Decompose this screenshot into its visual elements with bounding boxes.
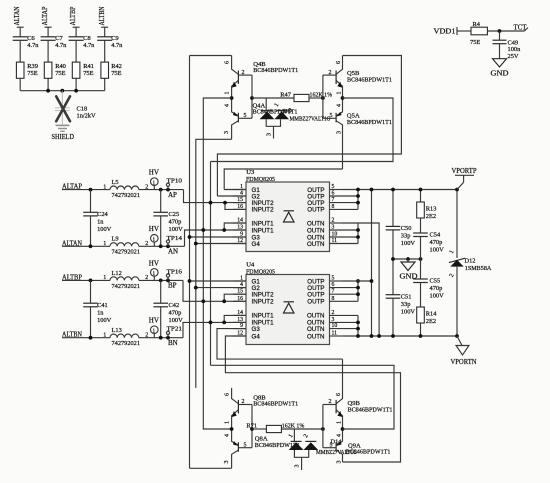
svg-text:100V: 100V (430, 292, 445, 299)
svg-text:G4: G4 (252, 241, 261, 248)
svg-text:OUTN: OUTN (307, 333, 325, 340)
wire rail AP / BN / Q9-emitters (210, 162, 212, 366)
svg-text:BC846BPDW1T1: BC846BPDW1T1 (253, 400, 298, 407)
wire U4 OUTP join (357, 281, 359, 301)
wire R71 right (281, 428, 323, 430)
resistor R40 75E (44, 62, 66, 91)
svg-text:C24: C24 (97, 211, 108, 218)
resistor R14 2E2 (417, 307, 438, 338)
node Q8 base/R71 junction (250, 427, 254, 431)
svg-text:742792021: 742792021 (112, 283, 141, 290)
transistor Q8A BC846BPDW1T1 (224, 429, 300, 468)
svg-text:R13: R13 (426, 206, 437, 213)
ground SHIELD (52, 125, 75, 140)
test point TP16 (166, 268, 183, 282)
svg-text:100V: 100V (97, 317, 112, 324)
svg-text:1n: 1n (97, 309, 104, 316)
node junction at C49 (498, 29, 502, 33)
svg-text:BC846BPDW1T1: BC846BPDW1T1 (346, 449, 391, 456)
wire Q5 emitters loop to U3 G2 (211, 98, 394, 162)
svg-text:4.7n: 4.7n (83, 42, 95, 49)
wire AP feed to U3 INPUT2 (184, 190, 247, 203)
svg-text:100V: 100V (401, 309, 416, 316)
svg-text:3: 3 (294, 465, 300, 468)
svg-text:AN: AN (168, 248, 178, 256)
wire rail Q4-emitters / AN / BP / Q8-emitters (203, 98, 231, 429)
wire AP node (139, 189, 184, 191)
svg-text:C41: C41 (97, 302, 108, 309)
wire U3 G2 row (217, 195, 246, 197)
svg-text:ALTAN: ALTAN (13, 7, 21, 26)
svg-text:5: 5 (330, 113, 333, 119)
svg-text:U4: U4 (246, 262, 255, 269)
transistor Q4A BC846BPDW1T1 (224, 98, 298, 139)
svg-text:4: 4 (225, 104, 231, 107)
svg-text:ALTBP: ALTBP (69, 6, 77, 25)
svg-text:2E2: 2E2 (426, 213, 436, 220)
svg-text:C42: C42 (169, 302, 180, 309)
wire Q4 base rail (251, 75, 253, 118)
wire OUTN bus (bottom) (343, 335, 458, 337)
wire AN feed to U3 INPUT1 (185, 230, 247, 246)
capacitor C41 1n 100V (83, 279, 111, 338)
resistor R13 2E2 (417, 188, 437, 233)
power flag HV (BN) (149, 317, 159, 338)
wire Q8 base rail (251, 405, 253, 448)
capacitor C18 1n/2kV (not fitted, greyed) (55, 91, 96, 125)
wire R47 left (252, 97, 294, 99)
svg-text:470p: 470p (169, 219, 182, 226)
svg-text:R39: R39 (27, 63, 38, 70)
wire U4 OUTN join (357, 315, 359, 336)
svg-text:VPORTN: VPORTN (451, 358, 477, 366)
diode D14 MMBZ27VALT1G (288, 429, 358, 470)
resistor R71 162K 1% (246, 423, 305, 433)
svg-text:G3: G3 (252, 326, 261, 333)
wire U4 G3 row to Q9B collector (217, 329, 343, 360)
capacitor C42 470p 100V (153, 279, 183, 338)
svg-text:4: 4 (225, 434, 231, 437)
inductor L12 742792021 (103, 270, 148, 290)
port ALTBN (98, 7, 108, 37)
port ALTAN (13, 7, 24, 37)
wire U3 G3 row (190, 236, 247, 238)
svg-text:33p: 33p (401, 301, 411, 308)
svg-text:742792021: 742792021 (112, 192, 141, 199)
wire BN node (139, 337, 183, 339)
wire BP feed to U4 INPUT2 (183, 280, 246, 301)
svg-text:742792021: 742792021 (112, 340, 141, 347)
resistor R4 75E (470, 21, 487, 46)
wire U4 G4 row to Q9A collector (225, 336, 400, 462)
svg-text:1: 1 (336, 92, 342, 95)
svg-text:100V: 100V (430, 246, 445, 253)
svg-text:TP21: TP21 (167, 326, 183, 333)
capacitor C51 33p 100V (386, 259, 416, 338)
svg-text:100V: 100V (97, 226, 112, 233)
svg-text:OUTP: OUTP (307, 292, 324, 299)
port TCT (514, 23, 529, 31)
svg-text:3: 3 (336, 461, 342, 464)
svg-text:HV: HV (149, 259, 159, 267)
transistor Q9A BC846BPDW1T1 (323, 429, 391, 464)
wire Q5B collector loop to U3 G1 (217, 56, 401, 197)
power flag HV (AP) (149, 169, 159, 190)
resistor R42 75E (101, 62, 122, 91)
port ALTAP (filter A) (62, 183, 110, 191)
node Q4 emitters junction (230, 96, 234, 100)
wire long rail Q4B-collector / U3-G3 / U4-G1 (189, 56, 191, 469)
svg-text:5: 5 (244, 443, 247, 449)
wire AN node (139, 245, 185, 247)
svg-text:3: 3 (224, 131, 230, 134)
wire Q8A collector loop bottom (190, 467, 232, 469)
svg-text:BN: BN (168, 339, 178, 347)
svg-text:OUTP: OUTP (307, 299, 324, 306)
svg-text:25V: 25V (508, 53, 519, 60)
port VPORTN (451, 336, 477, 366)
capacitor C24 1n 100V (83, 188, 111, 247)
svg-text:8: 8 (332, 296, 335, 302)
svg-text:3: 3 (336, 131, 342, 134)
inductor L13 742792021 (103, 327, 148, 347)
svg-text:1: 1 (103, 332, 106, 338)
svg-text:R41: R41 (83, 63, 94, 70)
wire mid rail (393, 258, 421, 260)
svg-text:C54: C54 (430, 231, 441, 238)
test point TP21 (166, 326, 182, 340)
svg-text:4: 4 (336, 104, 342, 107)
svg-text:13: 13 (237, 317, 243, 323)
svg-text:TP16: TP16 (167, 268, 183, 275)
svg-text:11: 11 (332, 238, 338, 244)
svg-text:C25: C25 (169, 211, 180, 218)
svg-text:SHIELD: SHIELD (52, 133, 75, 141)
capacitor C9 4.7n (97, 35, 123, 62)
port VPORTP (452, 167, 477, 190)
svg-text:OUTP: OUTP (307, 207, 324, 214)
op-amp U3 FDMQ8205 (233, 169, 358, 252)
svg-text:7: 7 (332, 289, 335, 295)
capacitor C55 470p 100V (413, 259, 444, 307)
wire R71 left (252, 428, 266, 430)
transistor Q9B BC846BPDW1T1 (323, 359, 393, 429)
svg-text:R14: R14 (426, 311, 437, 318)
svg-text:6: 6 (225, 393, 231, 396)
svg-text:ALTBN: ALTBN (98, 7, 106, 26)
svg-text:L5: L5 (112, 179, 119, 186)
wire OUTP-OUTN tie rail (371, 190, 373, 337)
svg-text:ALTAP: ALTAP (41, 6, 49, 25)
svg-text:OUTN: OUTN (307, 220, 325, 227)
capacitor C49 100n 25V (493, 31, 522, 60)
transistor Q5B BC846BPDW1T1 (323, 56, 392, 99)
node R71/Q9 junction (321, 427, 325, 431)
svg-text:BC846BPDW1T1: BC846BPDW1T1 (347, 119, 392, 126)
wire U4 INPUT1 pin14 branch (224, 315, 246, 322)
svg-text:INPUT1: INPUT1 (252, 220, 275, 227)
svg-text:6: 6 (332, 282, 335, 288)
svg-text:3: 3 (332, 317, 335, 323)
svg-text:5: 5 (332, 276, 335, 282)
svg-text:1: 1 (225, 92, 231, 95)
node Q4 base/R47 junction (250, 96, 254, 100)
wire shield bus (20, 90, 105, 92)
svg-text:3: 3 (224, 461, 230, 464)
wire OUTP bus (top) (343, 189, 458, 191)
svg-text:OUTN: OUTN (307, 326, 325, 333)
svg-text:1: 1 (225, 421, 231, 424)
svg-text:INPUT2: INPUT2 (252, 207, 275, 214)
wire U3 INPUT2 pin16 branch (225, 203, 246, 210)
svg-text:TP10: TP10 (167, 178, 183, 185)
svg-text:C50: C50 (401, 225, 412, 232)
svg-text:AP: AP (168, 191, 177, 199)
port ALTAP (41, 6, 52, 36)
svg-text:U3: U3 (246, 169, 255, 176)
wire U3 OUTN join (357, 223, 359, 244)
node Q9 emitters junction (341, 427, 345, 431)
port ALTBP (filter B) (62, 273, 110, 281)
svg-text:2: 2 (332, 310, 335, 316)
inductor L9 742792021 (103, 236, 148, 256)
svg-text:75E: 75E (55, 70, 65, 77)
svg-text:470p: 470p (430, 285, 443, 292)
svg-text:5: 5 (332, 184, 335, 190)
svg-text:HV: HV (149, 169, 159, 177)
svg-text:6: 6 (336, 61, 342, 64)
svg-text:HV: HV (149, 225, 159, 233)
svg-text:INPUT1: INPUT1 (252, 313, 275, 320)
svg-text:1n/2kV: 1n/2kV (77, 112, 97, 119)
power flag HV (AN) (149, 225, 159, 246)
svg-text:3: 3 (266, 133, 272, 136)
capacitor C7 4.7n (41, 35, 68, 62)
node Q5 emitters junction (341, 96, 345, 100)
svg-text:D6: D6 (283, 108, 291, 115)
wire Q5 base rail (322, 75, 324, 118)
svg-text:G4: G4 (252, 333, 261, 340)
wire U4 INPUT2 pin15 branch (224, 294, 246, 301)
svg-text:1: 1 (336, 421, 342, 424)
wire rail Q4A-collector / U3-G4 / U4-G2 / Q8B-collector (196, 139, 232, 388)
svg-text:1: 1 (103, 184, 106, 190)
resistor R39 75E (16, 62, 38, 91)
wire U3 OUTN to bottom bus (343, 223, 380, 336)
svg-text:3: 3 (332, 225, 335, 231)
diode D12 1SMB58A (449, 250, 492, 279)
wire BN feed to U4 INPUT1 (183, 322, 246, 337)
svg-text:VPORTP: VPORTP (452, 167, 477, 175)
resistor R47 162K 1% (280, 92, 332, 102)
svg-text:OUTN: OUTN (307, 227, 325, 234)
port ALTAN (filter A) (62, 239, 110, 247)
ground GND (mid) (400, 257, 418, 280)
svg-text:INPUT1: INPUT1 (252, 227, 275, 234)
svg-text:2E2: 2E2 (426, 318, 436, 325)
svg-text:11: 11 (332, 331, 338, 337)
svg-text:BC846BPDW1T1: BC846BPDW1T1 (347, 76, 392, 83)
node Q8 emitters junction (230, 427, 234, 431)
svg-text:5: 5 (330, 443, 333, 449)
wire U3 G4 row (196, 243, 246, 245)
wire Q5A collector loop (224, 169, 342, 190)
op-amp U4 FDMQ8205 (233, 262, 358, 345)
wire Q9 base rail (322, 405, 324, 448)
svg-text:L9: L9 (112, 236, 119, 243)
svg-text:1: 1 (103, 275, 106, 281)
svg-text:C51: C51 (401, 294, 412, 301)
svg-text:6: 6 (332, 191, 335, 197)
ground GND (top right) (491, 59, 509, 78)
svg-text:1SMB58A: 1SMB58A (465, 265, 492, 272)
transistor Q4B BC846BPDW1T1 (225, 56, 299, 99)
test point TP14 (166, 235, 183, 248)
wire R47 right (309, 97, 323, 99)
svg-text:13: 13 (237, 225, 243, 231)
wire BP node (139, 279, 183, 281)
capacitor C8 4.7n (69, 35, 96, 62)
resistor R41 75E (72, 62, 94, 91)
svg-text:75E: 75E (470, 39, 480, 46)
svg-text:L12: L12 (112, 270, 122, 277)
port ALTBP (69, 6, 80, 36)
svg-text:10: 10 (332, 323, 338, 329)
svg-text:MMBZ27VALT1G: MMBZ27VALT1G (290, 117, 332, 123)
no-fit cross over C18 (56, 96, 70, 121)
transistor Q5A BC846BPDW1T1 (323, 98, 392, 169)
test point TP10 (166, 178, 183, 192)
wire U3 G1 row (224, 189, 246, 191)
svg-text:R71: R71 (246, 423, 257, 430)
wire U4 G2 row (196, 287, 246, 289)
wire U3 INPUT1 pin14 branch (224, 223, 246, 230)
svg-text:2: 2 (329, 70, 332, 76)
wire U4 OUTP row to rail (343, 280, 372, 282)
capacitor C25 470p 100V (153, 188, 183, 247)
svg-text:OUTN: OUTN (307, 241, 325, 248)
svg-text:INPUT2: INPUT2 (252, 292, 275, 299)
node junction dots on shield bus (46, 89, 50, 93)
svg-text:R42: R42 (111, 63, 122, 70)
capacitor C6 4.7n (13, 35, 40, 62)
svg-text:75E: 75E (83, 70, 93, 77)
svg-text:2: 2 (329, 399, 332, 405)
svg-text:L13: L13 (112, 327, 122, 334)
svg-text:10: 10 (332, 232, 338, 238)
svg-text:7: 7 (332, 197, 335, 203)
svg-text:TP14: TP14 (167, 235, 183, 242)
svg-text:16: 16 (237, 296, 243, 302)
svg-text:R47: R47 (280, 92, 291, 99)
capacitor C50 33p 100V (386, 188, 416, 259)
svg-text:R40: R40 (55, 63, 66, 70)
svg-text:470p: 470p (169, 309, 182, 316)
svg-text:15: 15 (237, 197, 243, 203)
svg-text:8: 8 (332, 204, 335, 210)
svg-text:100V: 100V (401, 240, 416, 247)
node R47/Q5 base junction (321, 96, 325, 100)
svg-text:C55: C55 (430, 277, 441, 284)
svg-text:BP: BP (168, 282, 177, 290)
svg-text:100V: 100V (169, 317, 184, 324)
wire Q4B collector loop top (190, 55, 232, 57)
power flag HV (BP) (149, 259, 159, 280)
wire Q9 emitters loop (211, 365, 395, 429)
wire U3 OUTP join (357, 190, 359, 210)
svg-text:D12: D12 (465, 258, 476, 265)
svg-text:R4: R4 (473, 21, 481, 28)
svg-text:5: 5 (244, 113, 247, 119)
svg-text:4.7n: 4.7n (111, 42, 123, 49)
svg-text:6: 6 (225, 61, 231, 64)
svg-text:OUTN: OUTN (307, 313, 325, 320)
svg-text:2: 2 (242, 399, 245, 405)
inductor L5 742792021 (103, 179, 148, 199)
wire U4 G1 row (190, 280, 247, 282)
wire R4 to TCT (487, 30, 524, 32)
svg-text:2: 2 (332, 218, 335, 224)
svg-text:HV: HV (149, 317, 159, 325)
svg-text:33p: 33p (401, 233, 411, 240)
svg-text:470p: 470p (430, 239, 443, 246)
svg-text:1: 1 (103, 241, 106, 247)
wire VPORT rail (456, 190, 458, 259)
capacitor C54 470p 100V (413, 231, 444, 259)
svg-text:4.7n: 4.7n (27, 42, 39, 49)
port ALTBN (filter B) (62, 331, 110, 339)
svg-text:742792021: 742792021 (112, 249, 141, 256)
svg-text:4.7n: 4.7n (55, 42, 67, 49)
svg-text:75E: 75E (27, 70, 37, 77)
svg-text:INPUT2: INPUT2 (252, 299, 275, 306)
svg-text:VDD1: VDD1 (434, 28, 457, 36)
transistor Q8B BC846BPDW1T1 (225, 388, 299, 429)
svg-text:4: 4 (336, 434, 342, 437)
svg-text:GND: GND (491, 70, 509, 78)
svg-text:BC846BPDW1T1: BC846BPDW1T1 (253, 67, 298, 74)
svg-text:1n: 1n (97, 219, 104, 226)
port VDD1 (434, 27, 472, 36)
svg-text:6: 6 (336, 393, 342, 396)
svg-text:75E: 75E (111, 70, 121, 77)
svg-text:100V: 100V (169, 226, 184, 233)
diode D6 MMBZ27VALT1G (260, 98, 332, 139)
svg-text:2: 2 (242, 70, 245, 76)
svg-text:BC846BPDW1T1: BC846BPDW1T1 (348, 406, 393, 413)
